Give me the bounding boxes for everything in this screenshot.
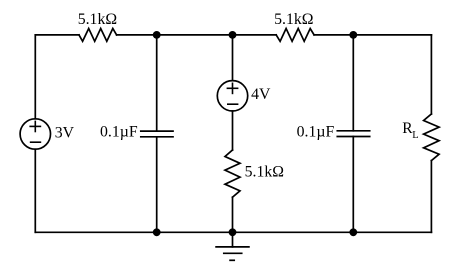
resistor R1 5.1kΩ (top-left) [79, 29, 117, 42]
resistor R3 5.1kΩ (middle vertical) [225, 150, 240, 197]
wire middle branch between source and resistor [232, 111, 234, 150]
svg-text:5.1kΩ: 5.1kΩ [274, 11, 313, 28]
resistor RL (load, right vertical) [424, 114, 440, 161]
wire right vertical upper [430, 35, 432, 114]
wire right vertical lower [430, 161, 432, 233]
node top at V2 branch [229, 31, 237, 39]
wire capacitor C1 branch upper [156, 35, 158, 131]
label RL [402, 120, 418, 141]
wire bottom [35, 231, 431, 233]
svg-text:0.1µF: 0.1µF [100, 123, 138, 140]
wire capacitor C1 branch lower [156, 137, 158, 233]
wire left vertical upper [34, 35, 36, 119]
wire top-right segment [314, 34, 431, 36]
resistor R2 5.1kΩ (top-right) [276, 29, 314, 42]
svg-text:3V: 3V [55, 124, 75, 141]
ground [216, 232, 249, 260]
wire capacitor C2 branch lower [352, 137, 354, 233]
node bottom at ground [229, 228, 237, 236]
wire top middle segment [117, 34, 277, 36]
wire middle branch upper [232, 35, 234, 81]
wire capacitor C2 branch upper [352, 35, 354, 131]
svg-text:0.1µF: 0.1µF [297, 123, 335, 140]
voltage source V2 4V [217, 81, 247, 111]
capacitor C1 0.1µF plates [141, 130, 173, 132]
voltage source V1 3V [20, 119, 50, 149]
svg-text:5.1kΩ: 5.1kΩ [78, 11, 117, 28]
node bottom at C2 branch [349, 228, 357, 236]
node bottom at C1 branch [153, 228, 161, 236]
svg-text:4V: 4V [251, 86, 271, 103]
svg-text:5.1kΩ: 5.1kΩ [245, 163, 284, 180]
wire middle branch lower [232, 197, 234, 232]
wire top-left segment [35, 34, 79, 36]
node top at C2 branch [349, 31, 357, 39]
wire left vertical lower [34, 149, 36, 232]
svg-text:L: L [412, 130, 418, 141]
node top at C1 branch [153, 31, 161, 39]
capacitor C2 0.1µF plates [337, 130, 369, 132]
